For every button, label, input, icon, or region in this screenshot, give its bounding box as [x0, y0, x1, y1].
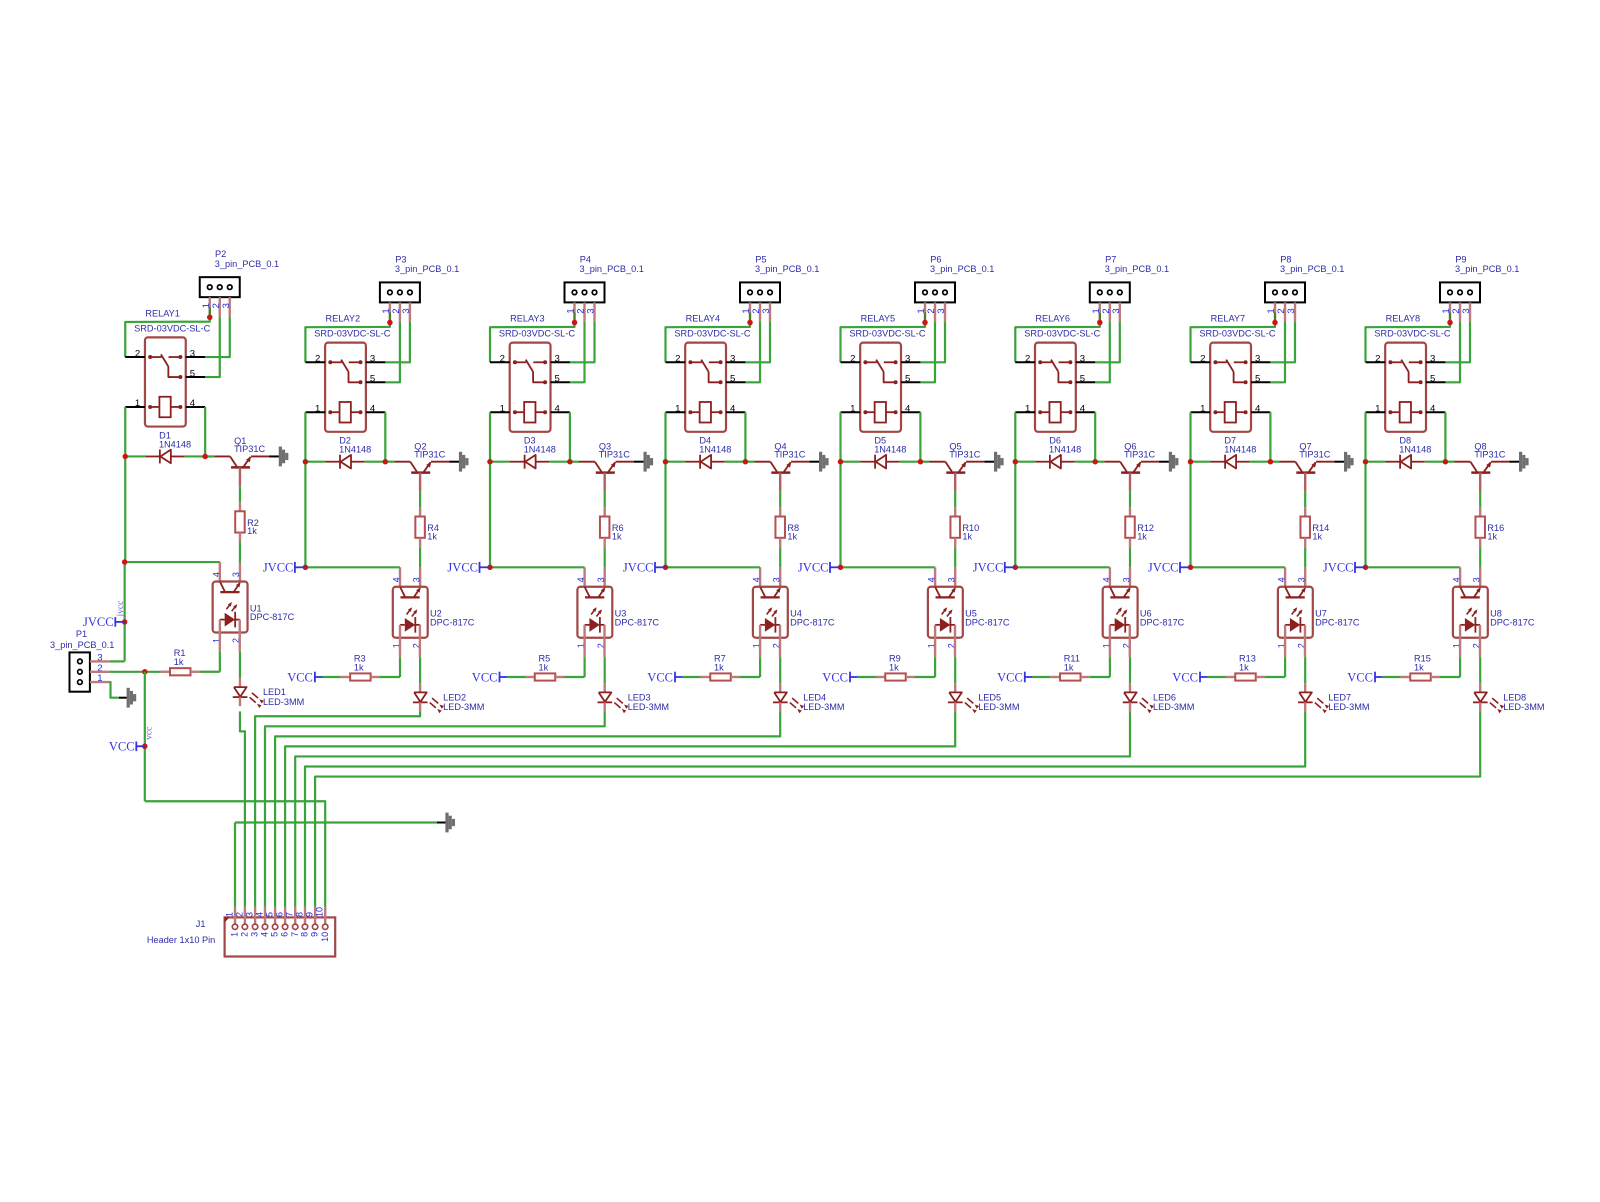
- svg-text:3: 3: [1111, 308, 1122, 313]
- svg-text:DPC-817C: DPC-817C: [1490, 617, 1535, 627]
- svg-text:4: 4: [254, 912, 264, 917]
- svg-text:7: 7: [285, 912, 295, 917]
- svg-text:5: 5: [265, 912, 275, 917]
- svg-text:3_pin_PCB_0.1: 3_pin_PCB_0.1: [755, 264, 819, 274]
- svg-text:P5: P5: [755, 254, 766, 264]
- svg-text:VCC: VCC: [109, 740, 135, 754]
- svg-text:RELAY8: RELAY8: [1386, 314, 1421, 324]
- svg-text:3: 3: [761, 308, 772, 313]
- svg-text:LED8: LED8: [1503, 692, 1526, 702]
- svg-text:1N4148: 1N4148: [339, 445, 371, 455]
- svg-text:9: 9: [305, 912, 315, 917]
- svg-text:1: 1: [315, 403, 320, 414]
- svg-text:JVCC: JVCC: [83, 615, 114, 629]
- svg-text:3_pin_PCB_0.1: 3_pin_PCB_0.1: [930, 264, 994, 274]
- svg-text:2: 2: [240, 932, 250, 937]
- svg-text:1N4148: 1N4148: [159, 439, 191, 449]
- svg-text:SRD-03VDC-SL-C: SRD-03VDC-SL-C: [1374, 329, 1450, 339]
- svg-text:RELAY4: RELAY4: [686, 314, 721, 324]
- svg-text:2: 2: [850, 354, 855, 365]
- svg-text:P8: P8: [1280, 254, 1291, 264]
- svg-text:6: 6: [275, 912, 285, 917]
- svg-text:4: 4: [190, 398, 196, 409]
- svg-text:3_pin_PCB_0.1: 3_pin_PCB_0.1: [580, 264, 644, 274]
- svg-text:TIP31C: TIP31C: [1124, 449, 1156, 459]
- svg-text:3: 3: [947, 577, 957, 582]
- svg-text:5: 5: [370, 374, 375, 385]
- svg-text:P7: P7: [1105, 254, 1116, 264]
- svg-text:RELAY1: RELAY1: [145, 308, 180, 318]
- svg-text:3: 3: [596, 577, 606, 582]
- svg-text:VCC: VCC: [287, 671, 313, 685]
- svg-text:1k: 1k: [1487, 531, 1497, 541]
- svg-text:1N4148: 1N4148: [1049, 445, 1081, 455]
- svg-text:3: 3: [231, 572, 241, 577]
- svg-text:3: 3: [190, 348, 195, 359]
- svg-text:5: 5: [1430, 374, 1435, 385]
- svg-text:DPC-817C: DPC-817C: [615, 617, 660, 627]
- svg-text:VCC: VCC: [822, 671, 848, 685]
- svg-text:1k: 1k: [1064, 662, 1074, 672]
- svg-text:Header 1x10 Pin: Header 1x10 Pin: [147, 935, 215, 945]
- svg-text:LED6: LED6: [1153, 692, 1176, 702]
- svg-text:1N4148: 1N4148: [699, 445, 731, 455]
- svg-text:1: 1: [230, 932, 240, 937]
- svg-text:3: 3: [1080, 354, 1085, 365]
- svg-text:JVCC: JVCC: [973, 561, 1004, 575]
- svg-text:P2: P2: [215, 249, 226, 259]
- svg-text:4: 4: [370, 403, 376, 414]
- svg-text:7: 7: [290, 932, 300, 937]
- svg-text:5: 5: [905, 374, 910, 385]
- svg-text:LED-3MM: LED-3MM: [628, 702, 669, 712]
- svg-text:3: 3: [245, 912, 255, 917]
- svg-text:9: 9: [310, 932, 320, 937]
- svg-text:5: 5: [730, 374, 735, 385]
- svg-text:1: 1: [1025, 403, 1030, 414]
- svg-text:DPC-817C: DPC-817C: [965, 617, 1010, 627]
- svg-text:3: 3: [411, 577, 421, 582]
- svg-text:LED-3MM: LED-3MM: [443, 702, 484, 712]
- svg-text:3: 3: [370, 354, 375, 365]
- svg-text:RELAY2: RELAY2: [326, 314, 361, 324]
- svg-text:10: 10: [315, 907, 325, 917]
- svg-text:4: 4: [555, 403, 561, 414]
- svg-text:JVCC: JVCC: [1148, 561, 1179, 575]
- svg-text:4: 4: [392, 577, 402, 582]
- svg-text:1k: 1k: [354, 662, 364, 672]
- svg-text:1k: 1k: [889, 662, 899, 672]
- svg-text:3_pin_PCB_0.1: 3_pin_PCB_0.1: [1280, 264, 1344, 274]
- svg-text:5: 5: [190, 368, 195, 379]
- svg-text:1k: 1k: [962, 531, 972, 541]
- svg-text:1N4148: 1N4148: [524, 445, 556, 455]
- svg-text:3: 3: [1297, 577, 1307, 582]
- svg-text:4: 4: [905, 403, 911, 414]
- svg-text:P9: P9: [1455, 254, 1466, 264]
- svg-text:DPC-817C: DPC-817C: [1140, 617, 1185, 627]
- svg-text:1k: 1k: [1137, 531, 1147, 541]
- svg-text:2: 2: [315, 354, 320, 365]
- svg-text:SRD-03VDC-SL-C: SRD-03VDC-SL-C: [674, 329, 750, 339]
- svg-text:4: 4: [211, 572, 221, 577]
- svg-text:1: 1: [224, 912, 234, 917]
- svg-text:1N4148: 1N4148: [1399, 445, 1431, 455]
- svg-text:VCC: VCC: [1347, 671, 1373, 685]
- svg-text:4: 4: [576, 577, 586, 582]
- svg-text:LED-3MM: LED-3MM: [978, 702, 1019, 712]
- svg-text:P3: P3: [395, 254, 406, 264]
- svg-text:RELAY3: RELAY3: [510, 314, 545, 324]
- svg-text:1: 1: [850, 403, 855, 414]
- svg-text:1: 1: [675, 403, 680, 414]
- svg-text:10: 10: [320, 932, 330, 942]
- svg-text:2: 2: [675, 354, 680, 365]
- svg-text:3: 3: [1121, 577, 1131, 582]
- svg-text:DPC-817C: DPC-817C: [250, 612, 295, 622]
- svg-text:JVCC: JVCC: [623, 561, 654, 575]
- svg-text:3: 3: [936, 308, 947, 313]
- svg-text:SRD-03VDC-SL-C: SRD-03VDC-SL-C: [1199, 329, 1275, 339]
- svg-text:RELAY7: RELAY7: [1211, 314, 1246, 324]
- svg-text:3_pin_PCB_0.1: 3_pin_PCB_0.1: [1455, 264, 1519, 274]
- svg-text:DPC-817C: DPC-817C: [790, 617, 835, 627]
- svg-text:2: 2: [1025, 354, 1030, 365]
- svg-text:P6: P6: [930, 254, 941, 264]
- svg-text:8: 8: [294, 912, 304, 917]
- svg-text:VCC: VCC: [472, 671, 498, 685]
- svg-text:LED-3MM: LED-3MM: [263, 697, 304, 707]
- svg-text:3: 3: [1286, 308, 1297, 313]
- svg-text:LED7: LED7: [1328, 692, 1351, 702]
- svg-text:4: 4: [1080, 403, 1086, 414]
- svg-text:3: 3: [1430, 354, 1435, 365]
- svg-text:LED-3MM: LED-3MM: [1153, 702, 1194, 712]
- svg-text:TIP31C: TIP31C: [1299, 449, 1331, 459]
- svg-text:1k: 1k: [539, 662, 549, 672]
- svg-text:1N4148: 1N4148: [1224, 445, 1256, 455]
- svg-text:TIP31C: TIP31C: [949, 449, 981, 459]
- svg-text:3_pin_PCB_0.1: 3_pin_PCB_0.1: [50, 640, 114, 650]
- svg-text:4: 4: [752, 577, 762, 582]
- svg-text:1k: 1k: [1312, 531, 1322, 541]
- svg-text:1: 1: [135, 398, 140, 409]
- svg-text:3_pin_PCB_0.1: 3_pin_PCB_0.1: [1105, 264, 1169, 274]
- svg-text:TIP31C: TIP31C: [234, 444, 266, 454]
- svg-text:LED4: LED4: [803, 692, 826, 702]
- svg-text:TIP31C: TIP31C: [1474, 449, 1506, 459]
- svg-text:vcc: vcc: [145, 727, 155, 740]
- svg-text:LED2: LED2: [443, 692, 466, 702]
- svg-text:1k: 1k: [714, 662, 724, 672]
- svg-text:RELAY6: RELAY6: [1035, 314, 1070, 324]
- svg-text:4: 4: [1101, 577, 1111, 582]
- svg-text:1: 1: [1200, 403, 1205, 414]
- svg-text:4: 4: [260, 932, 270, 937]
- svg-text:5: 5: [1080, 374, 1085, 385]
- svg-text:4: 4: [1430, 403, 1436, 414]
- svg-text:SRD-03VDC-SL-C: SRD-03VDC-SL-C: [314, 329, 390, 339]
- svg-text:3: 3: [250, 932, 260, 937]
- svg-text:JVCC: JVCC: [798, 561, 829, 575]
- svg-text:LED5: LED5: [978, 692, 1001, 702]
- svg-text:5: 5: [555, 374, 560, 385]
- svg-text:VCC: VCC: [1172, 671, 1198, 685]
- svg-text:DPC-817C: DPC-817C: [1315, 617, 1360, 627]
- svg-text:4: 4: [927, 577, 937, 582]
- svg-text:TIP31C: TIP31C: [414, 449, 446, 459]
- svg-text:jvcc: jvcc: [116, 601, 126, 618]
- svg-text:4: 4: [730, 403, 736, 414]
- svg-text:3: 3: [1255, 354, 1260, 365]
- svg-text:1: 1: [500, 403, 505, 414]
- svg-text:1k: 1k: [247, 526, 257, 536]
- svg-text:4: 4: [1452, 577, 1462, 582]
- svg-text:SRD-03VDC-SL-C: SRD-03VDC-SL-C: [499, 329, 575, 339]
- svg-text:SRD-03VDC-SL-C: SRD-03VDC-SL-C: [1024, 329, 1100, 339]
- svg-text:3: 3: [401, 308, 412, 313]
- svg-text:TIP31C: TIP31C: [599, 449, 631, 459]
- svg-text:1: 1: [1375, 403, 1380, 414]
- svg-text:3: 3: [555, 354, 560, 365]
- svg-text:TIP31C: TIP31C: [774, 449, 806, 459]
- svg-text:3: 3: [772, 577, 782, 582]
- svg-text:LED-3MM: LED-3MM: [803, 702, 844, 712]
- svg-text:2: 2: [1200, 354, 1205, 365]
- svg-text:P4: P4: [580, 254, 591, 264]
- svg-text:3: 3: [1461, 308, 1472, 313]
- svg-text:2: 2: [135, 348, 140, 359]
- svg-text:JVCC: JVCC: [447, 561, 478, 575]
- svg-text:8: 8: [300, 932, 310, 937]
- svg-text:2: 2: [234, 912, 244, 917]
- svg-text:LED1: LED1: [263, 687, 286, 697]
- svg-text:1k: 1k: [427, 531, 437, 541]
- svg-text:LED-3MM: LED-3MM: [1503, 702, 1544, 712]
- svg-text:RELAY5: RELAY5: [861, 314, 896, 324]
- svg-text:3_pin_PCB_0.1: 3_pin_PCB_0.1: [395, 264, 459, 274]
- svg-text:LED3: LED3: [628, 692, 651, 702]
- svg-text:3: 3: [586, 308, 597, 313]
- svg-text:4: 4: [1277, 577, 1287, 582]
- svg-text:VCC: VCC: [997, 671, 1023, 685]
- svg-text:4: 4: [1255, 403, 1261, 414]
- svg-text:JVCC: JVCC: [263, 561, 294, 575]
- svg-text:2: 2: [1375, 354, 1380, 365]
- svg-text:1k: 1k: [787, 531, 797, 541]
- svg-text:3: 3: [1472, 577, 1482, 582]
- svg-text:J1: J1: [196, 919, 206, 929]
- svg-text:P1: P1: [76, 629, 87, 639]
- svg-text:5: 5: [1255, 374, 1260, 385]
- svg-text:SRD-03VDC-SL-C: SRD-03VDC-SL-C: [849, 329, 925, 339]
- svg-text:3_pin_PCB_0.1: 3_pin_PCB_0.1: [215, 259, 279, 269]
- svg-text:1N4148: 1N4148: [874, 445, 906, 455]
- svg-text:1k: 1k: [1239, 662, 1249, 672]
- svg-text:LED-3MM: LED-3MM: [1328, 702, 1369, 712]
- svg-text:DPC-817C: DPC-817C: [430, 617, 475, 627]
- svg-text:JVCC: JVCC: [1323, 561, 1354, 575]
- svg-text:3: 3: [221, 303, 232, 308]
- svg-text:VCC: VCC: [647, 671, 673, 685]
- svg-text:5: 5: [270, 932, 280, 937]
- svg-text:6: 6: [280, 932, 290, 937]
- svg-text:1k: 1k: [1414, 662, 1424, 672]
- svg-text:2: 2: [500, 354, 505, 365]
- svg-text:3: 3: [905, 354, 910, 365]
- svg-text:3: 3: [730, 354, 735, 365]
- svg-text:1k: 1k: [612, 531, 622, 541]
- svg-text:SRD-03VDC-SL-C: SRD-03VDC-SL-C: [134, 323, 210, 333]
- svg-text:1k: 1k: [174, 657, 184, 667]
